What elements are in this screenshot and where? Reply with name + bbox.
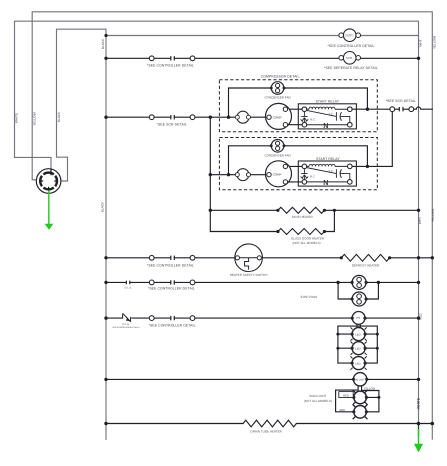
contact bars heater row (171, 256, 175, 260)
wire fan2 loop (229, 146, 368, 175)
condenser fan motor 2 (270, 140, 286, 153)
wire black: plug right to main left rail (57, 29, 107, 439)
compressor COMP2 (266, 161, 292, 187)
wire row CNTR (106, 35, 419, 37)
wire face heater row (210, 209, 418, 211)
svg-text:*SEE CONTROLLER DETAIL: *SEE CONTROLLER DETAIL (149, 324, 196, 328)
plug (power cord) (36, 169, 61, 194)
wire fan1 loop (229, 88, 368, 117)
svg-text:CONDENSER FAN: CONDENSER FAN (264, 96, 290, 100)
wire comp2 output riser (352, 112, 392, 167)
svg-text:COMPRESSOR DETAIL: COMPRESSOR DETAIL (261, 74, 300, 78)
sign lamp 1 (352, 390, 368, 405)
contact terminals (connector circles) (149, 56, 413, 321)
wire white: plug top to left-neutral rail (15, 21, 419, 427)
wire row SCR y58.3 (106, 57, 419, 59)
controller CNTR (339, 29, 361, 42)
svg-text:FACE HEATER: FACE HEATER (292, 215, 314, 219)
svg-text:*SEE SCR DETAIL: *SEE SCR DETAIL (157, 122, 187, 126)
node contact SCR detail right (390, 107, 395, 112)
coil relay2 (307, 165, 348, 167)
svg-text:BALLAST: BALLAST (354, 379, 365, 382)
relay SCR (339, 52, 361, 65)
ballast (352, 373, 369, 386)
svg-text:BLACK: BLACK (101, 38, 105, 49)
resistors (243, 207, 390, 427)
svg-text:*SEE SCR DETAIL: *SEE SCR DETAIL (386, 99, 416, 103)
capacitor R.C. relay2 (301, 169, 309, 180)
svg-text:*SEE CONTROLLER DETAIL: *SEE CONTROLLER DETAIL (328, 44, 375, 48)
svg-text:GLASS DOOR HEATER: GLASS DOOR HEATER (291, 236, 325, 240)
wire comp1 to relay1 (288, 109, 302, 125)
terminals relay2 (302, 164, 352, 184)
svg-text:BLACK: BLACK (57, 111, 61, 122)
box compressor detail 2 (219, 138, 377, 190)
wire relay1 out to SCR contact (352, 107, 432, 109)
svg-text:BLACK: BLACK (101, 201, 105, 212)
svg-text:*SEE SEPERATE RELAY DETAIL: *SEE SEPERATE RELAY DETAIL (324, 66, 378, 70)
svg-text:COMP: COMP (273, 115, 282, 119)
svg-text:COMP: COMP (273, 173, 282, 177)
rotated wire color labels (15, 36, 437, 409)
wire sign light row y379.4 (106, 378, 419, 380)
svg-text:S.C.: S.C. (328, 170, 333, 173)
svg-text:PS: PS (356, 316, 360, 320)
node contact comp feed row (149, 115, 154, 120)
svg-text:WHT: WHT (418, 217, 422, 224)
wire LED bracket (338, 324, 377, 363)
ground arrow bottom right (green) (414, 424, 423, 453)
wire evap fan2 branch (338, 282, 378, 299)
resistor glass door heater (278, 229, 324, 235)
svg-text:RED: RED (419, 312, 423, 319)
overload OL2 (235, 169, 250, 181)
svg-text:YELLOW: YELLOW (432, 36, 436, 49)
box compressor detail 1 (219, 80, 377, 132)
capacitor R.C. relay1 (301, 112, 309, 123)
contact bars PS row (171, 316, 175, 320)
svg-text:DRAIN TUBE HEATER: DRAIN TUBE HEATER (251, 429, 283, 433)
node contact heater row (149, 255, 154, 260)
svg-text:R.C.: R.C. (310, 176, 316, 179)
svg-text:YELLOW: YELLOW (431, 209, 435, 222)
svg-text:SIGN LIGHT: SIGN LIGHT (309, 394, 326, 398)
svg-text:START RELAY: START RELAY (316, 157, 340, 161)
evap fan motor 1 (351, 275, 368, 289)
svg-text:LED: LED (355, 361, 360, 365)
svg-text:WHITE: WHITE (416, 397, 420, 409)
svg-text:START RELAY: START RELAY (316, 100, 340, 104)
wire sign lamp brackets (336, 390, 379, 412)
wire bottom bus y423.5 (106, 423, 433, 425)
contact bars SCR row (171, 56, 175, 60)
relay U2 (start relay 2) (298, 161, 356, 187)
contact bars comp feed row (171, 115, 175, 119)
svg-text:YELLOW: YELLOW (33, 112, 37, 125)
ground arrow at plug (green) (45, 191, 54, 230)
svg-text:R.C.: R.C. (310, 118, 316, 121)
evap fan motor 2 (351, 292, 368, 306)
wire PS row y318.1 (106, 317, 419, 319)
svg-text:WHITE: WHITE (15, 113, 19, 123)
svg-text:RED: RED (339, 409, 345, 412)
LED 3 (351, 356, 367, 369)
svg-text:N: N (323, 178, 328, 187)
compressor COMP1 (266, 103, 292, 129)
svg-text:(SOLID DOOR MODELS ONLY): (SOLID DOOR MODELS ONLY) (112, 326, 140, 329)
switch DLS solid door (N shape) (123, 313, 131, 322)
wire comp2 feed row y174.65 (210, 174, 266, 176)
svg-text:HEATER SAFETY SWITCH: HEATER SAFETY SWITCH (230, 273, 268, 277)
svg-text:EVAP FANS: EVAP FANS (301, 295, 318, 299)
svg-text:*SEE CONTROLLER DETAIL: *SEE CONTROLLER DETAIL (147, 63, 194, 67)
wire evap fan row y282.4 (106, 281, 419, 283)
resistor defrost heater (341, 254, 389, 261)
condenser fan motor 1 (270, 82, 286, 95)
svg-text:DEFROST HEATER: DEFROST HEATER (352, 264, 380, 268)
sign lamp 2 (352, 404, 368, 419)
node contact PS row (149, 316, 154, 321)
svg-text:(NOT ALL MODELS): (NOT ALL MODELS) (292, 241, 320, 245)
terminals relay1 (302, 107, 352, 127)
svg-text:LED: LED (355, 332, 360, 336)
svg-text:CONDENSER FAN: CONDENSER FAN (264, 153, 290, 157)
svg-text:N: N (323, 121, 328, 130)
wire ballast neck (358, 386, 362, 391)
svg-text:WHT: WHT (419, 39, 423, 46)
svg-text:YELLOW: YELLOW (364, 388, 376, 391)
LED 1 (351, 327, 367, 340)
capacitor-style contact bars (123, 56, 403, 322)
svg-text:D.L.S.: D.L.S. (125, 286, 132, 289)
svg-text:(NOT ALL MODELS): (NOT ALL MODELS) (304, 399, 332, 403)
coil relay1 (307, 108, 348, 110)
switch arm + capacitor S.C. relay1 (306, 110, 350, 122)
LED 2 (351, 342, 367, 355)
contact bars evap row + DLS switch (126, 280, 174, 284)
resistor face heater (278, 207, 324, 213)
overload OL1 (235, 111, 250, 123)
switch arm + capacitor S.C. relay2 (306, 168, 350, 180)
node contact evap row (149, 280, 154, 285)
svg-text:S.C.: S.C. (328, 113, 333, 116)
heater safety switch (235, 244, 263, 272)
svg-text:CNTR: CNTR (345, 34, 353, 38)
node contact SCR row (149, 56, 154, 61)
svg-text:SCR: SCR (346, 56, 352, 60)
svg-text:*SEE CONTROLLER DETAIL: *SEE CONTROLLER DETAIL (148, 286, 195, 290)
box RED connector (339, 392, 353, 398)
resistor drain tube heater (243, 420, 296, 427)
relay U1 (start relay 1) (298, 104, 356, 130)
svg-text:D.L.S.: D.L.S. (123, 323, 130, 326)
wire drop x210.3 to glass row (210, 117, 278, 231)
svg-text:LED: LED (355, 346, 360, 350)
svg-text:RED: RED (343, 395, 349, 398)
wire heater safety row y257.8 (106, 257, 432, 259)
wire comp2 to relay2 (288, 166, 302, 182)
power supply PS (351, 312, 367, 325)
dark circuit wires (106, 58, 433, 423)
svg-text:*SEE CONTROLLER DETAIL: *SEE CONTROLLER DETAIL (147, 263, 194, 267)
wire glass-to-face link (324, 210, 334, 231)
contact bars SCR detail right (399, 107, 403, 111)
wire comp feed row y117.2 (106, 116, 267, 118)
